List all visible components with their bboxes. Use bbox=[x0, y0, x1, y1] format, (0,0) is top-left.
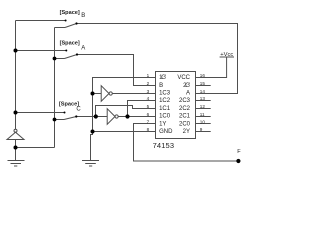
svg-text:A: A bbox=[81, 45, 85, 51]
svg-text:2C0: 2C0 bbox=[179, 121, 191, 127]
wire high rail V1 bbox=[15, 21, 17, 130]
ground GND1 bars bbox=[8, 161, 25, 167]
wire switch A pivot lead bbox=[55, 58, 65, 60]
op-amp U2 inverter bubble bbox=[109, 92, 112, 95]
switch S2 lever (A) bbox=[65, 55, 78, 59]
node junction V1-C bbox=[14, 111, 18, 115]
wire pin 16 to Vcc bbox=[196, 57, 227, 78]
svg-text:1C1: 1C1 bbox=[159, 106, 171, 112]
svg-text:8: 8 bbox=[147, 127, 150, 132]
node junction ground GND1 bbox=[14, 146, 18, 150]
svg-text:1C3: 1C3 bbox=[159, 91, 171, 97]
svg-text:1C2: 1C2 bbox=[159, 98, 171, 104]
svg-text:10: 10 bbox=[200, 119, 206, 124]
svg-text:7: 7 bbox=[147, 119, 150, 124]
op-amp U4 vertical inverter triangle bbox=[7, 132, 24, 139]
svg-text:A: A bbox=[186, 91, 190, 97]
svg-text:6: 6 bbox=[147, 112, 150, 117]
Vcc bar bbox=[220, 56, 234, 58]
node junction rail-inverter U2 bbox=[91, 92, 95, 96]
wire inverter U3 output to pin 6 bbox=[118, 116, 155, 118]
svg-text:14: 14 bbox=[200, 89, 206, 94]
op-amp U3 inverter bubble bbox=[115, 115, 118, 118]
wire switch B output to pin 14 bbox=[77, 24, 238, 94]
node junction rail-pin8 bbox=[91, 130, 95, 134]
wire node to pin 5 bbox=[96, 106, 156, 117]
svg-text:2Y: 2Y bbox=[183, 129, 190, 135]
wire inverter U2 input bbox=[93, 93, 102, 95]
node junction V2-C bbox=[53, 118, 57, 122]
svg-text:11: 11 bbox=[200, 112, 205, 117]
wire switch B top contact bbox=[16, 20, 66, 22]
svg-text:F: F bbox=[237, 149, 241, 155]
wire switch A top contact bbox=[16, 50, 67, 52]
ground GND2 stem with jog bbox=[91, 132, 93, 161]
wire inverter U2 output to pin 3 bbox=[112, 93, 155, 95]
svg-text:+Vcc: +Vcc bbox=[220, 52, 233, 58]
svg-text:9: 9 bbox=[200, 127, 203, 132]
ground GND1 stem bbox=[15, 140, 17, 161]
wire pin 7 to F bbox=[134, 124, 239, 162]
svg-text:15: 15 bbox=[200, 81, 206, 86]
svg-text:2C1: 2C1 bbox=[179, 114, 191, 120]
svg-text:[Space]: [Space] bbox=[60, 10, 80, 16]
switch A lever tip dot bbox=[76, 53, 78, 55]
wire pivot rail V2 bbox=[54, 28, 56, 148]
pin 13 stub bbox=[196, 100, 211, 102]
switch S3 lever (C) bbox=[64, 117, 76, 120]
node junction V2-A bbox=[53, 57, 57, 61]
wire ground rail V3 to pin 1 bbox=[93, 78, 156, 132]
node junction V1-A bbox=[14, 49, 18, 53]
pin 9 stub bbox=[196, 131, 211, 133]
wire pin 4 drop bbox=[128, 101, 156, 117]
switch C lever tip dot bbox=[75, 115, 77, 117]
node junction U3 out-pin4 bbox=[125, 114, 129, 118]
IC U1 74153 body bbox=[156, 72, 196, 139]
svg-text:2C2: 2C2 bbox=[179, 106, 191, 112]
pin 11 stub bbox=[196, 116, 211, 118]
svg-text:4: 4 bbox=[147, 96, 150, 101]
wire switch B pivot lead bbox=[55, 27, 66, 29]
svg-text:1G': 1G' bbox=[159, 75, 166, 81]
wire switch C top contact bbox=[16, 112, 65, 114]
svg-text:[Space]: [Space] bbox=[60, 41, 80, 47]
svg-text:VCC: VCC bbox=[177, 75, 190, 81]
svg-text:1Y: 1Y bbox=[159, 121, 166, 127]
svg-text:16: 16 bbox=[200, 73, 206, 78]
svg-text:5: 5 bbox=[147, 104, 150, 109]
svg-text:C: C bbox=[76, 107, 81, 113]
switch B contact dot bbox=[65, 20, 67, 22]
svg-text:B: B bbox=[81, 13, 85, 19]
svg-text:1C0: 1C0 bbox=[159, 114, 171, 120]
pin 10 stub bbox=[196, 123, 211, 125]
node junction C-pin5 bbox=[94, 114, 98, 118]
wire switch A output to pin 2 bbox=[77, 55, 156, 86]
switch A contact dot bbox=[65, 50, 67, 52]
switch B lever tip dot bbox=[75, 22, 77, 24]
wire V2 bottom to ground junction bbox=[16, 147, 55, 149]
op-amp U4 vertical inverter bubble bbox=[14, 129, 17, 132]
svg-text:13: 13 bbox=[200, 96, 206, 101]
pin 15 stub bbox=[196, 85, 211, 87]
svg-text:2G': 2G' bbox=[183, 83, 190, 89]
op-amp U2 inverter triangle bbox=[101, 86, 109, 102]
svg-text:12: 12 bbox=[200, 104, 206, 109]
switch C contact dot bbox=[64, 112, 66, 114]
ground GND2 bars bbox=[82, 161, 99, 167]
wire switch C output to inverter U3 input bbox=[76, 116, 107, 118]
svg-text:B: B bbox=[159, 83, 163, 89]
svg-text:3: 3 bbox=[147, 89, 150, 94]
node terminal F bbox=[236, 159, 240, 163]
svg-text:1: 1 bbox=[147, 73, 150, 78]
pin 12 stub bbox=[196, 108, 211, 110]
svg-text:74153: 74153 bbox=[153, 141, 175, 150]
svg-text:2C3: 2C3 bbox=[179, 98, 191, 104]
wire switch C pivot lead bbox=[55, 119, 65, 121]
svg-text:2: 2 bbox=[147, 81, 150, 86]
op-amp U3 inverter triangle bbox=[107, 109, 115, 125]
wire ground rail to pin 8 bbox=[93, 131, 156, 133]
svg-text:GND: GND bbox=[159, 129, 173, 135]
switch S1 lever (B) bbox=[65, 24, 77, 28]
